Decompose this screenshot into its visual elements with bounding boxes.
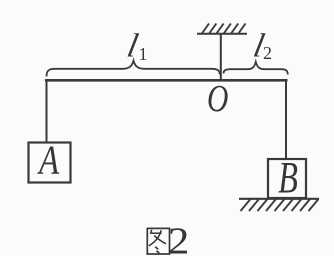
svg-text:1: 1 [139, 44, 148, 64]
box A [29, 143, 71, 183]
ceiling hatching [202, 24, 246, 35]
ceiling line [197, 33, 247, 35]
svg-text:O: O [207, 78, 228, 119]
ground hatching [241, 199, 319, 211]
svg-text:2: 2 [263, 43, 272, 63]
svg-text:A: A [36, 138, 59, 183]
pivot support wire [220, 34, 222, 80]
svg-text:2: 2 [168, 220, 189, 256]
right wire [285, 80, 287, 160]
svg-text:B: B [278, 154, 298, 202]
ground line [239, 198, 319, 200]
box B [268, 159, 306, 198]
caption glyph 图 (drawn) [147, 228, 169, 254]
brace l2 [224, 62, 288, 75]
left wire [46, 80, 48, 143]
lever bar [45, 79, 288, 82]
brace l1 [47, 61, 220, 77]
